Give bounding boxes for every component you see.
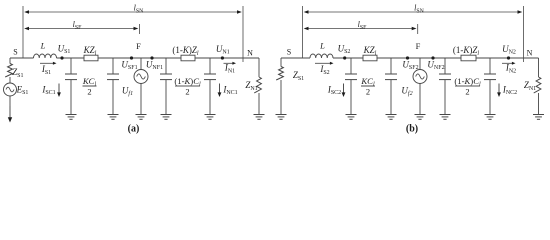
label (1-K)C_l/2 (fraction) (174, 76, 201, 97)
ground below left KC_l/2 (66, 115, 77, 120)
circuit (a): faulted network (4, 4, 265, 135)
svg-text:N: N (527, 49, 533, 58)
node dot right of F (U_NF1) (150, 56, 153, 59)
tick at node S (dimension reference) (22, 6, 24, 58)
svg-text:N: N (247, 49, 253, 58)
dimension arrow l_SN (S to N) (24, 10, 242, 13)
wire: S branch down (9, 58, 11, 64)
ground below fault source (136, 115, 147, 120)
dimension arrow l_SF (S to F) (304, 27, 417, 30)
dimension arrow l_SF (S to F) (24, 27, 138, 30)
tick at node S (dimension reference) (302, 6, 304, 58)
wire: (1-K)Z box to N (476, 57, 539, 59)
capacitor (1-K)C_l/2 right (at U_N1) (204, 58, 216, 115)
wire: main line S to N bus (10, 57, 34, 59)
tick at node N (dimension reference) (523, 6, 525, 62)
svg-text:2: 2 (366, 87, 370, 97)
current arrow I_SC1 (57, 84, 61, 98)
resistor Z_N1 (zigzag) (534, 77, 541, 93)
AC fault source U_f2 (413, 70, 427, 84)
tick at node F (dimension reference) (417, 24, 419, 34)
current arrow I_N2 (502, 62, 516, 65)
svg-text:2: 2 (87, 87, 91, 97)
wire: fault source to ground (140, 84, 142, 115)
wire: Z_N1 to ground (538, 93, 540, 115)
wire: S branch down (280, 58, 282, 67)
node U_N2 dot (507, 56, 510, 59)
ground below Z_N1 (533, 115, 544, 120)
wire: main line S to N bus (281, 57, 310, 59)
wire: KZ box to F (98, 57, 181, 59)
ground below Z_S1 (276, 115, 287, 120)
node U_N1 dot (221, 56, 224, 59)
svg-text:S: S (287, 48, 291, 57)
svg-text:2: 2 (185, 87, 189, 97)
label (1-K)C_l/2 (fraction) (454, 76, 481, 97)
capacitor (1-K)C_l/2 left (at F, N side) (160, 58, 172, 115)
current arrow I_NC2 (497, 84, 501, 98)
wire: fault source to ground (419, 84, 421, 115)
capacitor KC_l/2 left (at U_S1) (65, 58, 77, 115)
current arrow I_NC1 (218, 84, 222, 98)
ground below Z_N1 (254, 115, 265, 120)
capacitor (1-K)C_l/2 right (at U_N2) (484, 58, 496, 115)
ground below (1-K)C_l/2 left (161, 115, 172, 120)
resistor Z_S1 (zigzag) (276, 67, 283, 81)
ground arrow below E_S1 (8, 107, 12, 123)
circuit (b): fault component network (276, 4, 545, 135)
svg-text:L: L (319, 41, 325, 51)
resistor Z_S1 (zigzag) (5, 64, 12, 78)
wire: coil to KZ box (333, 57, 363, 59)
wire: N branch down (258, 58, 260, 77)
svg-text:F: F (416, 41, 421, 51)
ground below (1-K)C_l/2 left (440, 115, 451, 120)
ground below fault source (415, 115, 426, 120)
ground below right KC_l/2 (386, 115, 397, 120)
ground below left KC_l/2 (346, 115, 357, 120)
wire: Z_N1 to ground (258, 93, 260, 115)
wire: F down to fault source (419, 58, 421, 70)
resistor (1-K)Z_l (box) (461, 55, 476, 61)
capacitor KC_l/2 right (at F, S side) (385, 58, 397, 115)
svg-text:2: 2 (465, 87, 469, 97)
wire: E_S1 down (9, 96, 11, 107)
wire: coil to KZ box (57, 57, 85, 59)
tick at node F (dimension reference) (139, 24, 141, 34)
AC fault source U_f1 (134, 70, 148, 84)
wire: (1-K)Z box to N (195, 57, 259, 59)
node U_S1 dot (60, 56, 63, 59)
wire: KZ box to F (377, 57, 461, 59)
resistor KZ_l (box) (363, 55, 377, 61)
svg-text:(b): (b) (406, 124, 418, 135)
ground below right KC_l/2 (108, 115, 119, 120)
svg-text:L: L (40, 41, 46, 51)
node dot left of F (U_SF2) (406, 56, 409, 59)
wire: Z_S1 to ground (280, 80, 282, 115)
node dot right of F (U_NF2) (431, 56, 434, 59)
capacitor KC_l/2 left (at U_S2) (345, 58, 357, 115)
resistor (1-K)Z_l (box) (181, 55, 195, 61)
ground below (1-K)C_l/2 right (485, 115, 496, 120)
resistor KZ_l (box) (84, 55, 98, 61)
resistor Z_N1 (zigzag) (254, 77, 261, 93)
current arrow I_S2 (315, 62, 334, 65)
wire: F down to fault source (140, 58, 142, 70)
inductor L (310, 54, 333, 58)
wire: Z_S1 to E_S1 (9, 77, 11, 83)
capacitor (1-K)C_l/2 left (at F, N side) (439, 58, 451, 115)
svg-text:F: F (136, 41, 141, 51)
ground below (1-K)C_l/2 right (205, 115, 216, 120)
wire: N branch down (538, 58, 540, 77)
tick at node N (dimension reference) (242, 6, 244, 62)
svg-text:S: S (13, 48, 17, 57)
label KC_l/2 (fraction) (82, 76, 97, 97)
capacitor KC_l/2 right (at F, S side) (107, 58, 119, 115)
dimension arrow l_SN (S to N) (304, 10, 523, 13)
svg-text:(a): (a) (128, 124, 140, 135)
label KC_l/2 (fraction) (360, 76, 375, 97)
current arrow I_S1 (40, 62, 57, 65)
inductor L (34, 54, 57, 58)
AC source E_S1 (4, 83, 17, 96)
current arrow I_N1 (224, 62, 237, 65)
current arrow I_SC2 (342, 84, 346, 98)
node U_S2 dot (343, 56, 346, 59)
node dot left of F (U_SF1) (130, 56, 133, 59)
